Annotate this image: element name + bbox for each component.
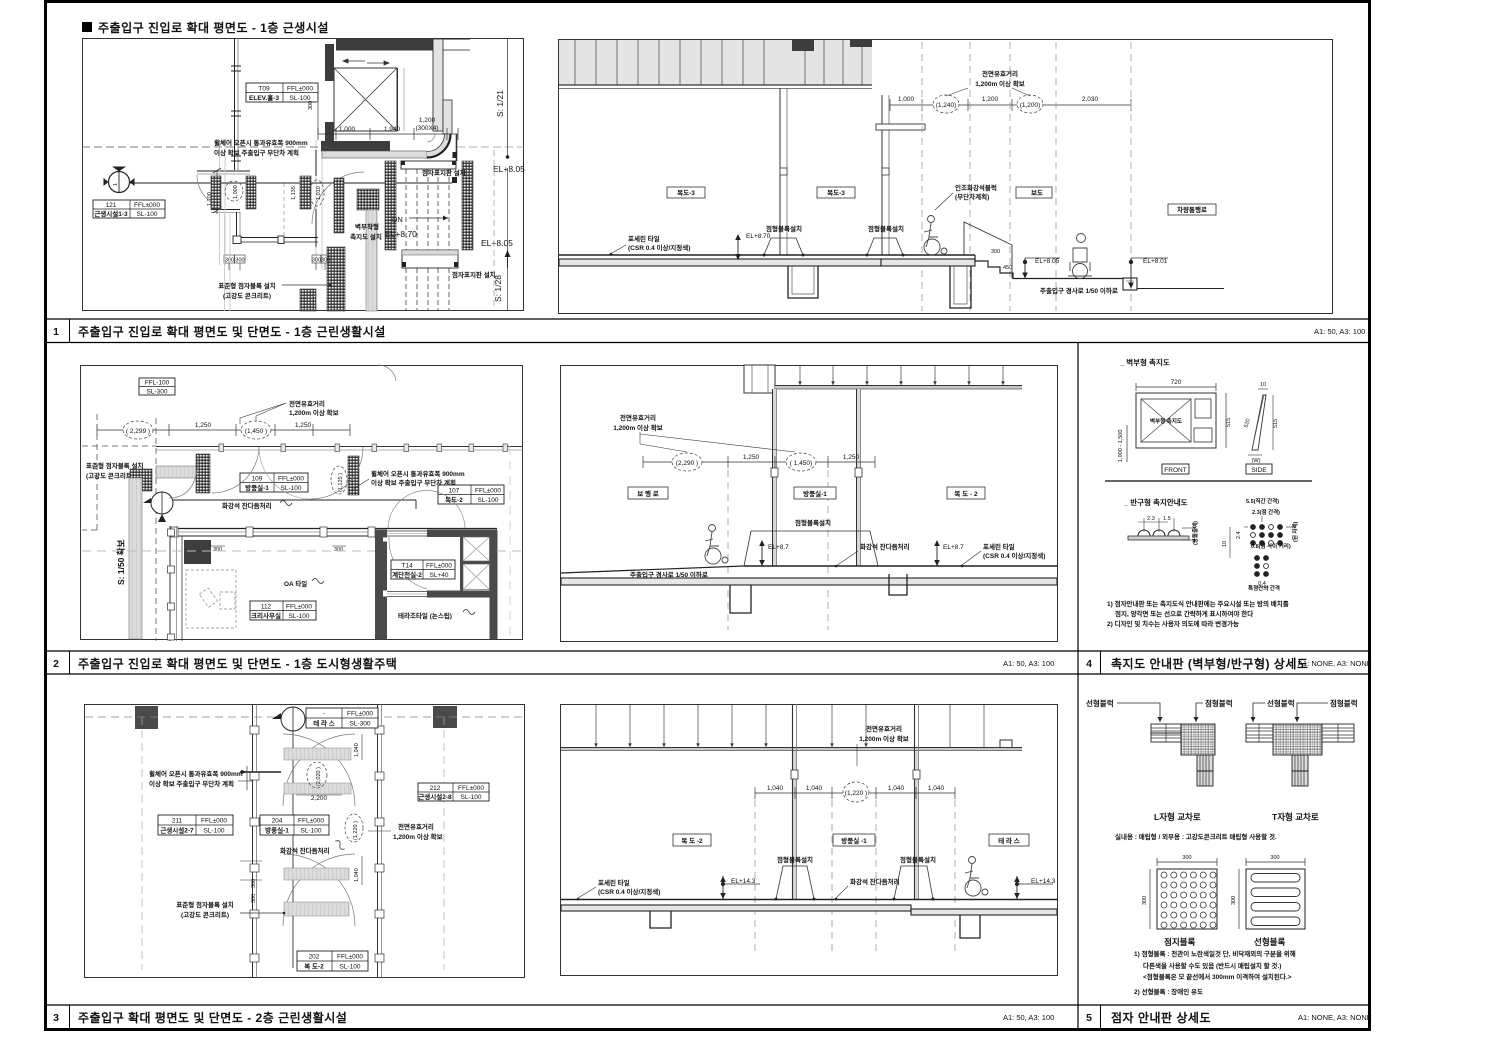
label box 107: [438, 485, 504, 504]
dark wall section above b: [850, 40, 872, 47]
svg-text:1,200: 1,200: [982, 96, 999, 103]
T-type: vertical bar: [1292, 755, 1308, 786]
entry dim tick line: [216, 170, 218, 214]
dashed property corner: [82, 414, 156, 641]
room label 방풍실-1: [833, 834, 875, 846]
grid band light a: [219, 140, 221, 265]
svg-text:204: 204: [272, 818, 283, 825]
svg-text:S: 1/28: S: 1/28: [493, 275, 503, 302]
svg-text:1,200m 이상 확보: 1,200m 이상 확보: [289, 408, 339, 417]
svg-text:1,010: 1,010: [316, 186, 322, 200]
svg-text:SL-100: SL-100: [340, 964, 361, 971]
svg-text:이상 확보 주출입구 무단차 계획: 이상 확보 주출입구 무단차 계획: [149, 779, 234, 788]
svg-text:(1,240): (1,240): [936, 102, 957, 109]
svg-text:1,000: 1,000: [339, 126, 356, 133]
plan border box: [85, 705, 525, 978]
corridor center line: [292, 731, 294, 968]
svg-text:EL+8.7: EL+8.7: [943, 544, 964, 551]
heading marker: [82, 22, 92, 32]
svg-text:(1,220 ): (1,220 ): [845, 790, 867, 797]
svg-text:300: 300: [312, 258, 321, 264]
reference line: [130, 182, 452, 184]
label box 112: [250, 601, 316, 620]
door arcs top pair: [283, 734, 355, 806]
room label 복도-3 b: [817, 187, 855, 198]
L-type: vertical bar: [1197, 755, 1213, 786]
svg-text:1,000: 1,000: [233, 185, 239, 199]
dark wall section above a: [792, 40, 814, 51]
(2,299) dim ellipse: [123, 421, 153, 439]
foundation pit b: [950, 266, 971, 308]
separator line: [1105, 480, 1312, 482]
door swing arc A: [197, 175, 222, 207]
svg-text:EL+8.05: EL+8.05: [1035, 258, 1060, 265]
(1,200) circle dim: [1017, 95, 1043, 113]
svg-text:포세린 타일: 포세린 타일: [983, 542, 1015, 551]
svg-text:(1,220 ): (1,220 ): [353, 821, 359, 840]
entrance steps: [975, 255, 1123, 279]
svg-text:5: 5: [1086, 1012, 1092, 1024]
hatched pier a: [211, 176, 221, 209]
svg-text:300: 300: [1231, 896, 1237, 905]
tactile mats bottom: [284, 868, 349, 880]
dark column: [184, 540, 211, 564]
svg-text:112: 112: [261, 604, 272, 611]
svg-text:(고강도 콘크리트): (고강도 콘크리트): [86, 471, 134, 480]
svg-text:2: 2: [53, 658, 59, 670]
foundation pit a: [650, 911, 671, 928]
svg-text:크리사무실: 크리사무실: [251, 611, 281, 620]
svg-text:2) 선형블록 : 장애인 유도: 2) 선형블록 : 장애인 유도: [1134, 987, 1203, 996]
svg-text:SL+40: SL+40: [430, 572, 449, 579]
label box 211: [158, 815, 233, 835]
room label 테라스: [989, 834, 1029, 846]
svg-text:(된 자례): (된 자례): [1291, 521, 1299, 542]
svg-text:1,200m 이상 확보: 1,200m 이상 확보: [613, 423, 663, 432]
svg-text:2,200: 2,200: [311, 795, 328, 802]
(1,000) dim ellipse: [225, 181, 243, 201]
svg-text:1,250: 1,250: [743, 454, 760, 461]
svg-text:300: 300: [321, 258, 330, 264]
svg-text:300: 300: [1142, 896, 1148, 905]
elevator shafts: [460, 537, 463, 591]
svg-text:T14: T14: [401, 563, 413, 570]
label box 204: [260, 815, 329, 835]
svg-text:FFL±000: FFL±000: [287, 86, 313, 93]
svg-text:(고강도 콘크리트): (고강도 콘크리트): [223, 291, 271, 300]
storefront mullion line: [156, 446, 523, 448]
room label 복도-2: [947, 487, 985, 499]
label box FFL-100/SL-300: [139, 378, 175, 395]
svg-text:차량통행로: 차량통행로: [1177, 205, 1207, 214]
left exterior wall (double line with window ticks): [234, 38, 236, 170]
svg-text:1,250: 1,250: [195, 422, 212, 429]
svg-text:인조화강석블럭: 인조화강석블럭: [955, 183, 997, 192]
svg-text:2) 디자인 및 치수는 사용자 의도에 따라 변경가능: 2) 디자인 및 치수는 사용자 의도에 따라 변경가능: [1107, 619, 1239, 628]
interior wall line: [315, 150, 317, 176]
svg-text:휠체어 오픈시 통과유효폭 900mm: 휠체어 오픈시 통과유효폭 900mm: [214, 138, 308, 147]
(2,020) dim: [307, 762, 327, 788]
svg-text:(2,290 ): (2,290 ): [676, 460, 698, 467]
stair lobby door arc: [389, 537, 427, 589]
svg-text:화강석 잔다듬처리: 화강석 잔다듬처리: [860, 542, 910, 551]
foundation pit b: [960, 915, 980, 938]
svg-text:A1: 50, A3: 100: A1: 50, A3: 100: [1003, 659, 1054, 668]
svg-text:점형블럭: 점형블럭: [1330, 698, 1358, 708]
svg-text:1,200m 이상 확보: 1,200m 이상 확보: [859, 734, 909, 743]
svg-text:300: 300: [308, 101, 314, 110]
dim extension lines: [224, 214, 226, 311]
svg-text:점형블록설치: 점형블록설치: [868, 224, 904, 233]
T-type: right bar: [1322, 724, 1354, 742]
(1,450) dim ellipse: [786, 453, 816, 471]
svg-text:벽부형 촉지도: 벽부형 촉지도: [1150, 417, 1182, 425]
elevator door arrows: [343, 59, 389, 65]
sign board front view: [1136, 393, 1216, 448]
svg-text:전면유효거리: 전면유효거리: [620, 413, 656, 422]
svg-text:화강석 잔다듬처리: 화강석 잔다듬처리: [222, 501, 272, 510]
svg-text:720: 720: [1171, 379, 1182, 386]
curved wall outer arc: [427, 134, 451, 158]
L-type: dot square: [1181, 724, 1215, 755]
svg-text:1,200m 이상 확보: 1,200m 이상 확보: [975, 79, 1025, 88]
svg-text:테라조타일 (논스립): 테라조타일 (논스립): [398, 611, 452, 620]
wall stub down: [236, 212, 238, 238]
svg-text:복도-3: 복도-3: [677, 188, 695, 197]
dims for dot block: [1157, 861, 1217, 863]
svg-text:2.4: 2.4: [1236, 531, 1242, 539]
svg-text:EL+8.7: EL+8.7: [768, 544, 789, 551]
bumps: [1138, 530, 1150, 536]
svg-text:전면유효거리: 전면유효거리: [982, 69, 1018, 78]
wheelchair figure: [705, 525, 728, 565]
entry mat gray: [156, 466, 198, 478]
svg-text:1,940: 1,940: [384, 126, 401, 133]
dot layout grid: [1251, 525, 1283, 577]
elevation mark circle: [109, 172, 130, 193]
svg-text:( 1,450): ( 1,450): [790, 460, 812, 467]
svg-text:선형블럭: 선형블럭: [1086, 698, 1114, 708]
svg-text:1,040: 1,040: [767, 785, 784, 792]
(1,125) dim ellipse: [331, 466, 347, 494]
stair core walls: [375, 530, 387, 640]
svg-text:0.8(점 사이 거리): 0.8(점 사이 거리): [1251, 542, 1291, 550]
svg-text:300: 300: [334, 547, 343, 553]
dot block detail: [1157, 869, 1217, 929]
(1,450) dim ellipse: [241, 421, 271, 439]
elevation mark circle: [281, 707, 305, 731]
svg-text:A1: 50, A3: 100: A1: 50, A3: 100: [1314, 327, 1365, 336]
svg-text:107: 107: [449, 488, 460, 495]
svg-text:L자형 교차로: L자형 교차로: [1154, 812, 1201, 822]
svg-text:SL-100: SL-100: [478, 497, 499, 504]
grid line S:1/21: [507, 38, 509, 157]
interior wall 2: [881, 95, 883, 255]
entry step gray band: [322, 151, 427, 158]
tactile mound trapezoid: [744, 531, 878, 566]
svg-text:A1: NONE, A3: NONE: A1: NONE, A3: NONE: [1298, 1013, 1372, 1022]
svg-text:300: 300: [213, 547, 222, 553]
bottom sign banner: [402, 250, 458, 268]
svg-text:점형블럭: 점형블럭: [1205, 698, 1233, 708]
svg-text:1,135: 1,135: [291, 186, 297, 200]
mound b: [894, 866, 933, 899]
grid dashed through core: [82, 550, 375, 552]
foundation pit a: [788, 266, 818, 298]
svg-text:복 도 -2: 복 도 -2: [681, 836, 703, 845]
svg-text:DN: DN: [392, 215, 403, 224]
plan border box: [83, 39, 524, 311]
dimension line: [890, 99, 1131, 111]
svg-text:FFL±000: FFL±000: [458, 785, 484, 792]
height leader: [1182, 527, 1196, 529]
door window lines top: [387, 530, 427, 532]
svg-text:SL-100: SL-100: [461, 794, 482, 801]
hatched pier b: [246, 176, 256, 209]
stair riser dashed lines: [406, 161, 449, 310]
svg-text:점형블록설치: 점형블록설치: [777, 855, 813, 864]
section mark circle: [151, 492, 173, 514]
svg-text:OA 타일: OA 타일: [284, 579, 307, 588]
svg-text:(봉돌출예): (봉돌출예): [1191, 521, 1199, 545]
svg-text:T09: T09: [258, 86, 270, 93]
grid band light b: [315, 140, 317, 270]
svg-text:10: 10: [1260, 382, 1266, 388]
svg-text:방풍실-1: 방풍실-1: [245, 483, 269, 492]
svg-text:표준형 점자블록 설치: 표준형 점자블록 설치: [86, 461, 143, 470]
top door arc: [378, 365, 396, 381]
room label 복도-3 a: [667, 187, 705, 198]
svg-text:FFL±000: FFL±000: [298, 818, 324, 825]
dashed grid verticals: [141, 717, 143, 970]
label box 121: [93, 200, 165, 218]
svg-text:1,000: 1,000: [898, 96, 915, 103]
svg-text:T자형 교차로: T자형 교차로: [1272, 812, 1319, 822]
svg-text:EL+8.70: EL+8.70: [385, 229, 417, 239]
svg-text:1) 점자안내판 또는 촉지도식 안내판에는 주요시설 또는: 1) 점자안내판 또는 촉지도식 안내판에는 주요시설 또는 방의 배치를: [1107, 599, 1289, 608]
T-type: left bar: [1246, 724, 1273, 742]
svg-text:109: 109: [252, 476, 263, 483]
dot block mound a: [764, 238, 803, 255]
svg-text:휠체어 오픈시 통과유효폭 900mm: 휠체어 오픈시 통과유효폭 900mm: [149, 769, 243, 778]
curved wall inner arc: [427, 134, 435, 142]
svg-text:300: 300: [1270, 855, 1279, 861]
bump dims: [1138, 521, 1168, 523]
svg-text:SL-100: SL-100: [204, 828, 225, 835]
section border box: [559, 40, 1333, 314]
svg-text:주출입구 진입로 확대 평면도 및 단면도 - 1층 근린생: 주출입구 진입로 확대 평면도 및 단면도 - 1층 근린생활시설: [78, 324, 386, 339]
room label 복도-2: [673, 834, 711, 846]
wall right of curve: [456, 134, 458, 161]
svg-text:1,040: 1,040: [354, 868, 360, 882]
svg-text:보 행 로: 보 행 로: [637, 489, 659, 498]
svg-text:포세린 타일: 포세린 타일: [598, 878, 630, 887]
wheelchair figure b: [1068, 234, 1092, 279]
sign board side view: [1252, 395, 1266, 450]
svg-text:FFL±000: FFL±000: [286, 604, 312, 611]
svg-text:1,040: 1,040: [888, 785, 905, 792]
svg-text:FFL±000: FFL±000: [475, 488, 501, 495]
label box 212: [418, 783, 489, 801]
svg-text:주출입구 진입로 확대 평면도 - 1층 근생시설: 주출입구 진입로 확대 평면도 - 1층 근생시설: [98, 20, 329, 35]
svg-text:FFL±000: FFL±000: [337, 954, 363, 961]
svg-text:<점형블록은 모 끝선에서 300mm 이격하여 설치된다.: <점형블록은 모 끝선에서 300mm 이격하여 설치된다.>: [1143, 972, 1292, 981]
floor line: [559, 254, 881, 256]
stair side hatch right: [462, 161, 473, 250]
linear block detail: [1246, 869, 1305, 929]
svg-text:515: 515: [1226, 418, 1232, 427]
svg-text:ELEV.홀-3: ELEV.홀-3: [249, 93, 279, 102]
foundation pit b: [889, 574, 907, 595]
ceiling line with hangers: [800, 366, 1003, 385]
room label 차량통행로: [1168, 204, 1216, 215]
svg-text:점형블록설치: 점형블록설치: [795, 518, 831, 527]
mullion 2: [857, 389, 861, 566]
svg-text:점자표지판 설치: 점자표지판 설치: [422, 168, 466, 177]
wheelchair figure: [965, 857, 988, 897]
L-type: linear bar: [1151, 724, 1181, 742]
corridor wall left: [252, 704, 254, 978]
svg-text:SL-100: SL-100: [301, 828, 322, 835]
svg-text:근생시설1-3: 근생시설1-3: [94, 209, 128, 218]
svg-text:1,200: 1,200: [419, 117, 436, 124]
svg-text:특정간의 간격: 특정간의 간격: [1248, 584, 1280, 592]
floor slab band: [561, 578, 1057, 585]
svg-text:선형블록: 선형블록: [1254, 937, 1285, 947]
hatched pier d: [334, 178, 344, 233]
svg-text:A1: 50, A3: 100: A1: 50, A3: 100: [1003, 1013, 1054, 1022]
label box 테라스: [306, 708, 378, 728]
floor line: [561, 899, 1057, 901]
svg-text:FFL±000: FFL±000: [201, 818, 227, 825]
dimension line: [97, 424, 350, 436]
dimension line: [755, 787, 955, 799]
svg-text:A1: NONE, A3: NONE: A1: NONE, A3: NONE: [1298, 659, 1372, 668]
svg-text:EL+8.05: EL+8.05: [481, 238, 513, 248]
top wall thin continuation: [441, 38, 470, 40]
svg-text:(CSR 0.4 이상/지정색): (CSR 0.4 이상/지정색): [983, 551, 1045, 560]
svg-text:EL+8.05: EL+8.05: [493, 164, 525, 174]
plan border box: [81, 366, 523, 640]
svg-text:(고강도 콘크리트): (고강도 콘크리트): [181, 910, 229, 919]
svg-text:촉지도 설치: 촉지도 설치: [350, 232, 382, 241]
svg-text:근생시설2-8: 근생시설2-8: [418, 792, 452, 801]
title strip row2: [44, 650, 1371, 652]
svg-text:(무단차계획): (무단차계획): [955, 192, 989, 201]
dashed grid lines: [728, 470, 828, 630]
svg-text:(300X4): (300X4): [415, 125, 438, 132]
svg-text:점자 안내판 상세도: 점자 안내판 상세도: [1111, 1010, 1211, 1025]
hatched pier c: [300, 176, 311, 209]
svg-text:10: 10: [1222, 541, 1228, 547]
door arcs lobby: [169, 456, 198, 498]
elevator shaft: [334, 68, 397, 131]
door window lines mid: [387, 591, 427, 593]
svg-text:1: 1: [53, 326, 59, 338]
svg-text:테 라 스: 테 라 스: [313, 719, 335, 728]
tactile mats top: [284, 748, 351, 760]
leader: [282, 284, 330, 286]
wall ledge: [876, 124, 925, 130]
mullion 1: [793, 751, 797, 899]
interior wall 1: [779, 88, 781, 255]
title strip row1: [44, 318, 1371, 320]
svg-text:SL-100: SL-100: [289, 613, 310, 620]
dimension line top: [318, 128, 458, 140]
room label 보도: [1016, 187, 1052, 198]
svg-text:300: 300: [235, 258, 244, 264]
svg-text:5.5(직간 간격): 5.5(직간 간격): [1246, 497, 1279, 505]
svg-text:방풍실-1: 방풍실-1: [265, 826, 289, 835]
FRONT label: [1162, 464, 1189, 474]
svg-text:점형블록설치: 점형블록설치: [766, 224, 802, 233]
dashed grid lines: [755, 800, 955, 952]
dim 720: [1136, 386, 1216, 388]
wall dark left of lobby: [325, 122, 334, 150]
svg-text:212: 212: [430, 785, 441, 792]
dashed grid lines: [922, 42, 1131, 311]
svg-text:1,250: 1,250: [843, 454, 860, 461]
svg-text:300: 300: [251, 894, 257, 903]
bump profile base: [1128, 536, 1189, 540]
svg-text:점자표지판 설치: 점자표지판 설치: [452, 270, 496, 279]
reference line: [173, 499, 416, 501]
svg-text:S: 1/21: S: 1/21: [495, 90, 505, 117]
svg-text:1,040: 1,040: [806, 785, 823, 792]
svg-text:EL+8.70: EL+8.70: [746, 233, 771, 240]
room label 보행로: [628, 487, 668, 499]
svg-text:FFL-100: FFL-100: [145, 380, 170, 387]
SIDE label: [1246, 464, 1272, 474]
svg-text:SL-100: SL-100: [281, 485, 302, 492]
svg-text:450: 450: [1003, 265, 1012, 271]
svg-text:포세린 타일: 포세린 타일: [628, 234, 660, 243]
svg-text:화강석 잔다듬처리: 화강석 잔다듬처리: [280, 846, 330, 855]
svg-text:515: 515: [1273, 419, 1279, 428]
hatched block e: [357, 189, 379, 210]
dashed grid line horizontal: [82, 146, 330, 148]
svg-text:1,040: 1,040: [928, 785, 945, 792]
side dims: [1258, 388, 1268, 390]
room label 방풍실-1: [794, 487, 836, 499]
svg-text:FFL±000: FFL±000: [426, 563, 452, 570]
section border box: [561, 705, 1058, 976]
svg-text:(1,200): (1,200): [1020, 102, 1041, 109]
hatched pier left: [196, 454, 210, 493]
dot block mound b: [867, 238, 903, 255]
svg-text:계단전실-2: 계단전실-2: [392, 570, 422, 579]
curb block: [1123, 278, 1137, 290]
floor slab band left: [561, 905, 911, 911]
wall dark lobby bottom: [321, 141, 390, 151]
svg-text:SL-100: SL-100: [137, 211, 158, 218]
svg-text:SL-300: SL-300: [350, 721, 371, 728]
mullion 1: [773, 389, 777, 566]
(2,290) dim ellipse: [672, 453, 702, 471]
(1,010) dim ellipse: [310, 180, 324, 206]
dim 515 front: [1225, 393, 1227, 448]
svg-text:1,000 - 1,500: 1,000 - 1,500: [1118, 430, 1124, 462]
svg-text:방풍실 -1: 방풍실 -1: [841, 836, 867, 845]
dashed grid vertical: [493, 150, 495, 310]
svg-text:FRONT: FRONT: [1164, 467, 1186, 474]
(1,220) circle: [843, 782, 869, 802]
svg-text:3: 3: [53, 1012, 59, 1024]
slab step: [911, 909, 921, 911]
svg-text:1,040: 1,040: [354, 743, 360, 757]
svg-text:점지, 양각면 또는 선으로 간략하게 표시하여야 한다: 점지, 양각면 또는 선으로 간략하게 표시하여야 한다: [1115, 609, 1253, 618]
ceiling slab band: [559, 40, 872, 85]
